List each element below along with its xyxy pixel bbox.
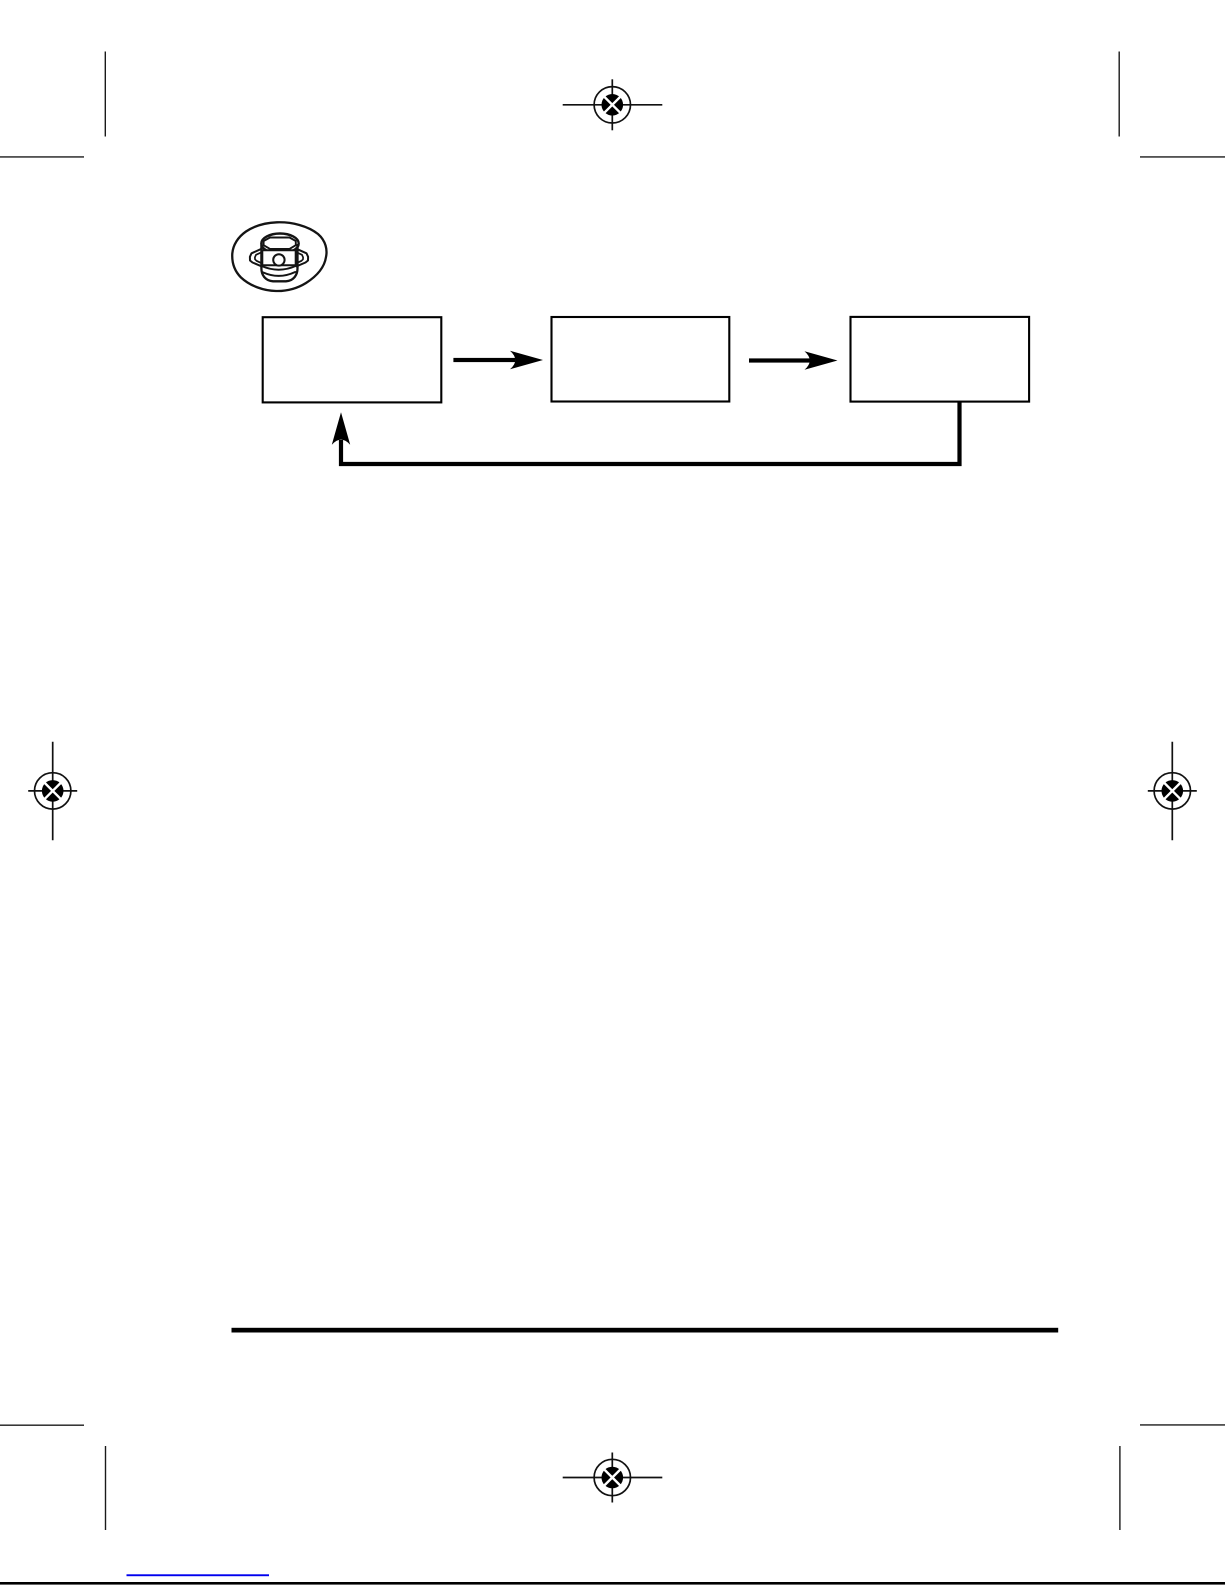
flowchart box 1 <box>263 317 442 402</box>
registration target left-middle <box>28 742 77 840</box>
feedback wire box3 bottom to box1 bottom <box>341 403 960 465</box>
logo supply icon <box>232 222 326 291</box>
registration target right-middle <box>1148 742 1197 840</box>
blue underline bottom-left <box>127 1574 270 1576</box>
crop mark bottom-right horizontal <box>1140 1424 1225 1426</box>
flowchart box 2 <box>552 317 730 402</box>
arrow box1 to box2 <box>453 351 543 370</box>
arrow box2 to box3 <box>749 351 838 370</box>
registration target top-center <box>563 79 663 130</box>
bottom edge line <box>0 1582 1225 1585</box>
crop mark top-right horizontal <box>1140 156 1225 158</box>
feedback arrowhead up <box>332 412 350 445</box>
crop mark bottom-left vertical <box>105 1446 107 1530</box>
crop mark top-left vertical <box>104 52 106 137</box>
crop mark top-right vertical <box>1118 52 1120 137</box>
registration target bottom-center <box>563 1453 663 1503</box>
crop mark bottom-left horizontal <box>0 1424 84 1426</box>
crop mark top-left horizontal <box>0 156 84 158</box>
crop mark bottom-right vertical <box>1119 1446 1121 1530</box>
flowchart box 3 <box>851 317 1030 402</box>
footer thick rule <box>232 1328 1059 1333</box>
